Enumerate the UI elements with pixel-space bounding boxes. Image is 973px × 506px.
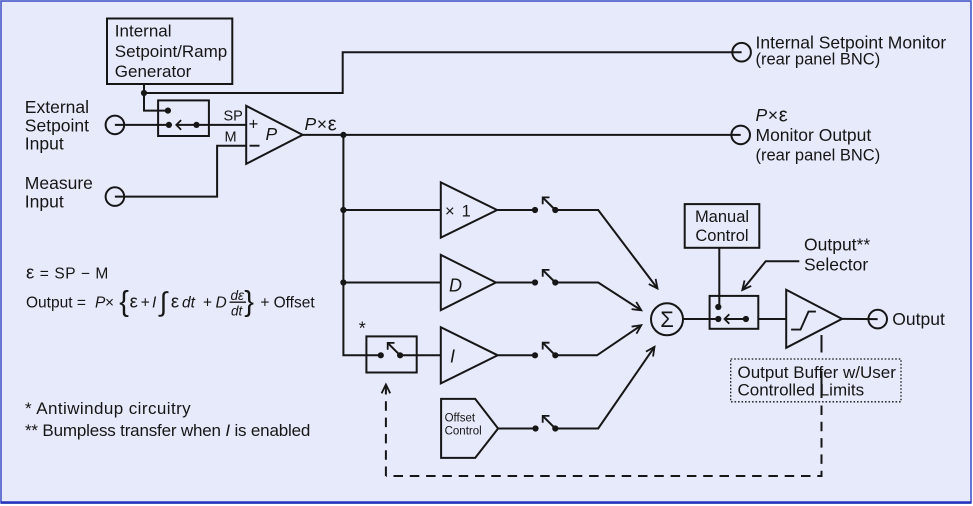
svg-text:D: D	[216, 295, 227, 312]
svg-text:ε: ε	[130, 291, 138, 312]
block: Manual Control	[685, 204, 760, 248]
svg-text:×: ×	[105, 295, 114, 312]
wire: x1 switch to summer with arrow	[555, 210, 657, 289]
wire: selector to output buffer	[758, 318, 786, 320]
switch on x1 path	[532, 197, 559, 213]
switch on I path	[532, 343, 559, 359]
terminal: Measure Input	[106, 187, 125, 206]
wire: junction to internal setpoint monitor	[144, 52, 742, 93]
wire: I switch to summer with arrow	[555, 325, 641, 355]
svg-text:Input: Input	[25, 134, 64, 154]
junction trunk to D branch	[340, 279, 346, 285]
dashed feedback path down and left	[386, 406, 822, 477]
svg-text:Control: Control	[445, 425, 482, 437]
wire: D switch to summer with arrow	[555, 283, 641, 311]
switch on offset path	[532, 416, 558, 432]
terminal: Output	[868, 310, 887, 329]
wire: branch to D amplifier	[343, 282, 440, 284]
svg-text:Offset: Offset	[274, 295, 316, 312]
switch on D path	[532, 270, 559, 286]
switch: antiwindup (integrator input)	[366, 336, 416, 372]
svg-text:+: +	[203, 295, 212, 312]
svg-text:Input: Input	[25, 191, 64, 211]
wire: SP into P amplifier	[197, 124, 247, 126]
wire: generator output down to junction and SP switch top contact	[144, 84, 168, 111]
label: Measure Input	[25, 173, 93, 211]
block: Internal Setpoint/Ramp Generator	[107, 19, 232, 85]
wire: I output to switch	[498, 354, 535, 356]
switch: setpoint selector box	[158, 100, 209, 136]
svg-text:+: +	[141, 295, 150, 312]
wire: antiwindup switch to I amplifier	[400, 354, 441, 356]
block: Offset Control	[441, 399, 498, 458]
wire: branch to x1 amplifier	[343, 209, 440, 211]
svg-text:Setpoint: Setpoint	[25, 115, 89, 135]
junction	[141, 90, 147, 96]
dashed vertical through limits box	[821, 371, 823, 398]
junction trunk to x1 branch	[340, 207, 346, 213]
svg-text:Offset: Offset	[445, 413, 476, 425]
svg-text:{: {	[119, 286, 129, 318]
svg-text:Internal: Internal	[115, 22, 172, 41]
summing node sigma	[651, 303, 683, 335]
wire: measure input to P amplifier minus input	[115, 146, 246, 197]
wire: x1 output to switch	[497, 209, 535, 211]
svg-text:Output**: Output**	[804, 235, 870, 255]
svg-text:dε: dε	[231, 288, 246, 303]
svg-text:I: I	[152, 295, 157, 312]
svg-text:P: P	[266, 124, 278, 144]
svg-text:+: +	[260, 295, 269, 312]
label: External Setpoint Input	[25, 97, 89, 153]
svg-text:ε = SP − M: ε = SP − M	[26, 261, 109, 282]
svg-text:M: M	[225, 130, 237, 146]
wire: offset switch to summer with arrow	[555, 347, 654, 429]
svg-text:Selector: Selector	[804, 255, 868, 275]
wire: buffer to output terminal	[842, 318, 878, 320]
svg-text:SP: SP	[224, 109, 243, 125]
svg-text:dt: dt	[231, 304, 244, 319]
svg-text:Control: Control	[695, 227, 748, 245]
switch: output selector box	[710, 296, 759, 329]
dashed feedback arrow up into antiwindup switch	[385, 385, 387, 477]
svg-text:Internal Setpoint Monitor: Internal Setpoint Monitor	[756, 32, 947, 52]
svg-text:× 1: × 1	[445, 202, 472, 220]
terminal: Internal Setpoint Monitor BNC	[732, 43, 751, 62]
frame bottom rule	[1, 501, 972, 504]
svg-text:External: External	[25, 97, 89, 117]
amplifier I (integrator)	[441, 327, 498, 383]
svg-text:Generator: Generator	[115, 62, 192, 81]
label: Output** Selector callout	[742, 235, 870, 291]
svg-text:P×ε: P×ε	[305, 113, 338, 135]
amplifier D (derivative)	[441, 255, 496, 310]
svg-text:Monitor Output: Monitor Output	[756, 125, 872, 145]
wire: summer to output selector	[683, 318, 718, 320]
svg-text:I: I	[450, 346, 455, 366]
svg-text:(rear panel BNC): (rear panel BNC)	[756, 51, 881, 69]
svg-text:Setpoint/Ramp: Setpoint/Ramp	[115, 42, 227, 61]
op-amp P (error amplifier)	[246, 106, 302, 164]
svg-text:Measure: Measure	[25, 173, 93, 193]
wire: buffer to dashed limits box leader	[821, 335, 823, 353]
svg-text:Output Buffer w/User: Output Buffer w/User	[738, 363, 897, 382]
terminal: PxE Monitor Output BNC	[731, 126, 750, 145]
svg-text:P×ε: P×ε	[756, 105, 789, 127]
junction on P output	[340, 132, 346, 138]
svg-text:+: +	[249, 116, 259, 134]
amplifier x1 (proportional unity path)	[441, 182, 497, 237]
svg-text:(rear panel BNC): (rear panel BNC)	[756, 147, 881, 165]
svg-text:}: }	[244, 286, 254, 318]
svg-text:ε: ε	[171, 291, 179, 312]
wire: P output to PxE monitor	[303, 134, 741, 136]
wire: D output to switch	[496, 282, 535, 284]
svg-text:Output: Output	[892, 309, 945, 329]
amplifier: output buffer with limiter	[786, 290, 842, 348]
terminal: External Setpoint Input	[106, 116, 125, 135]
label: PxE Monitor Output	[756, 105, 881, 165]
svg-text:Manual: Manual	[695, 208, 749, 226]
svg-text:Output =: Output =	[26, 295, 86, 312]
annotation box: Output Buffer w/User Controlled Limits	[731, 359, 901, 402]
wire: trunk from PxE node down to antiwindup switch	[343, 135, 380, 355]
wire: external setpoint input to switch contact	[115, 124, 169, 126]
wire: manual control to selector top contact	[718, 248, 720, 307]
svg-text:dt: dt	[182, 295, 196, 312]
svg-text:** Bumpless transfer when I is: ** Bumpless transfer when I is enabled	[25, 421, 310, 440]
svg-text:*: *	[359, 319, 366, 339]
svg-text:D: D	[449, 275, 462, 295]
wire: offset control to switch	[498, 428, 535, 430]
svg-text:* Antiwindup circuitry: * Antiwindup circuitry	[25, 399, 191, 418]
svg-text:Σ: Σ	[660, 307, 674, 332]
svg-text:Controlled Limits: Controlled Limits	[738, 381, 865, 400]
svg-text:∫: ∫	[158, 287, 169, 317]
formula: output equation	[26, 286, 315, 318]
label: Internal Setpoint Monitor	[756, 32, 947, 68]
